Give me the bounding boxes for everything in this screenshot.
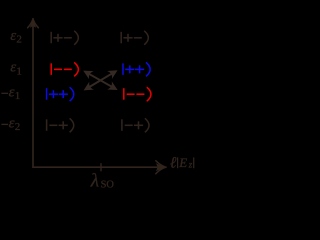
svg-text:1: 1 <box>16 65 22 77</box>
svg-text:2: 2 <box>15 121 20 133</box>
svg-text:ℓ: ℓ <box>170 154 177 171</box>
svg-text:ε: ε <box>10 60 16 76</box>
svg-text:ε: ε <box>9 84 15 100</box>
svg-text:SO: SO <box>101 179 115 189</box>
svg-text:1: 1 <box>15 90 20 102</box>
svg-text:λ: λ <box>90 171 99 189</box>
svg-text:ε: ε <box>9 116 15 132</box>
svg-text:2: 2 <box>16 34 22 46</box>
svg-text:ε: ε <box>10 28 16 44</box>
svg-text:E: E <box>178 155 187 170</box>
svg-text:z: z <box>188 160 193 170</box>
